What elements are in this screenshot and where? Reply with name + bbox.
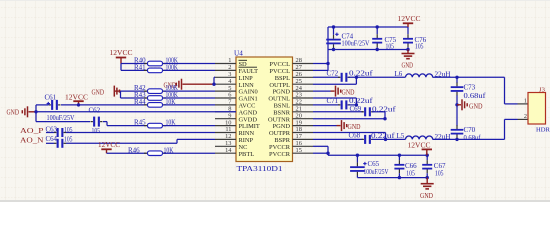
svg-text:12VCC: 12VCC — [110, 49, 133, 57]
svg-text:105: 105 — [435, 170, 444, 177]
svg-text:L5: L5 — [397, 132, 405, 140]
svg-text:C69: C69 — [350, 105, 362, 113]
svg-text:C61: C61 — [45, 93, 57, 101]
svg-text:TPA3110D1: TPA3110D1 — [237, 164, 283, 173]
svg-text:12VCC: 12VCC — [65, 93, 88, 101]
svg-text:10K: 10K — [164, 146, 174, 154]
svg-text:HDR1X2: HDR1X2 — [536, 126, 550, 133]
svg-text:GND: GND — [402, 63, 414, 70]
svg-text:100K: 100K — [166, 64, 179, 72]
svg-text:100uF/25V: 100uF/25V — [342, 39, 370, 47]
svg-text:R46: R46 — [128, 146, 140, 154]
svg-text:0.22uf: 0.22uf — [372, 106, 396, 113]
svg-text:12VCC: 12VCC — [408, 141, 431, 149]
svg-text:R44: R44 — [134, 98, 146, 106]
svg-text:C72: C72 — [327, 69, 339, 77]
svg-text:GND: GND — [342, 89, 355, 96]
svg-text:C71: C71 — [327, 97, 339, 105]
svg-text:105: 105 — [406, 170, 415, 177]
svg-text:PVCCR: PVCCR — [269, 151, 291, 158]
svg-text:C70: C70 — [464, 126, 476, 134]
svg-text:10K: 10K — [166, 119, 176, 127]
svg-text:J3: J3 — [539, 86, 546, 93]
svg-text:10K: 10K — [166, 98, 176, 106]
svg-text:105: 105 — [415, 44, 424, 51]
svg-text:14: 14 — [225, 147, 232, 154]
svg-text:GND: GND — [469, 103, 483, 110]
svg-text:105: 105 — [64, 137, 73, 144]
svg-text:U4: U4 — [234, 49, 243, 57]
svg-text:C62: C62 — [89, 107, 101, 115]
svg-text:C73: C73 — [464, 83, 476, 91]
svg-text:C68: C68 — [349, 132, 361, 140]
svg-text:PBTL: PBTL — [239, 151, 255, 158]
svg-text:GND: GND — [92, 89, 105, 96]
svg-text:C66: C66 — [405, 162, 417, 170]
svg-text:C65: C65 — [368, 160, 380, 168]
svg-text:C63: C63 — [46, 126, 58, 133]
svg-text:AO_P: AO_P — [20, 128, 44, 135]
svg-text:0.68uf: 0.68uf — [464, 135, 482, 142]
svg-text:105: 105 — [64, 127, 73, 134]
svg-text:R45: R45 — [134, 119, 146, 127]
svg-text:AO_N: AO_N — [20, 138, 44, 145]
svg-text:C67: C67 — [434, 162, 446, 170]
svg-text:L6: L6 — [395, 70, 403, 78]
svg-text:12VCC: 12VCC — [98, 141, 120, 149]
svg-text:100uF/25V: 100uF/25V — [364, 168, 389, 176]
svg-text:12VCC: 12VCC — [398, 15, 421, 23]
svg-text:GND: GND — [7, 110, 20, 117]
svg-text:0.22uf: 0.22uf — [371, 133, 395, 140]
svg-text:GND: GND — [420, 193, 433, 200]
svg-text:0.22uf: 0.22uf — [349, 71, 373, 78]
svg-text:C64: C64 — [46, 136, 58, 143]
svg-text:15: 15 — [296, 147, 302, 154]
svg-text:2: 2 — [524, 113, 527, 120]
svg-text:105: 105 — [386, 44, 395, 51]
svg-text:105: 105 — [92, 128, 101, 135]
svg-text:0.68uf: 0.68uf — [464, 92, 487, 100]
svg-text:1: 1 — [524, 98, 527, 105]
svg-text:GND: GND — [348, 124, 361, 131]
svg-text:R41: R41 — [134, 64, 146, 72]
svg-text:100uF/25V: 100uF/25V — [47, 114, 75, 122]
